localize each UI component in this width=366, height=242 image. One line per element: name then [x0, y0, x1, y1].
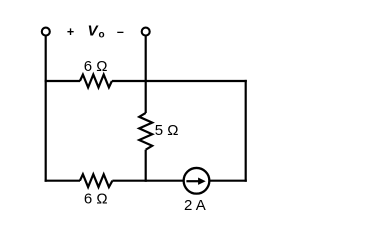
wire bottom branch right segment [209, 180, 247, 182]
wire middle vertical upper segment [145, 80, 147, 113]
svg-text:5 Ω: 5 Ω [155, 122, 179, 139]
current source arrow [186, 180, 199, 182]
resistor 6 ohm (top) [80, 75, 112, 88]
wire middle vertical lower segment [145, 150, 147, 182]
wire right vertical [245, 80, 247, 182]
wire top branch left segment [45, 80, 80, 82]
resistor 6 ohm (bottom) [80, 174, 113, 187]
svg-text:2 A: 2 A [184, 197, 206, 214]
svg-text:+: + [67, 25, 74, 39]
svg-text:Vo: Vo [88, 22, 105, 40]
terminal A (left open circle) [42, 28, 50, 36]
svg-text:6 Ω: 6 Ω [84, 58, 108, 75]
svg-text:6 Ω: 6 Ω [84, 191, 108, 208]
wire from terminal B down to top branch [145, 36, 147, 81]
wire left vertical (terminal A down to bottom-left corner) [45, 36, 47, 182]
wire top branch right segment [112, 80, 247, 82]
terminal B (right open circle) [142, 28, 150, 36]
current source I1 circle [184, 168, 210, 194]
resistor 5 ohm (middle vertical) [139, 113, 152, 150]
svg-text:–: – [117, 25, 124, 39]
wire bottom branch left segment [45, 180, 80, 182]
wire bottom branch middle segment [112, 180, 184, 182]
